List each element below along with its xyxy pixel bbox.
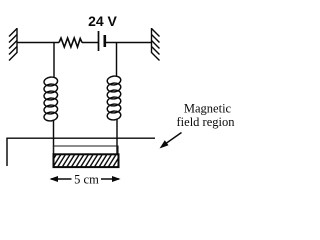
svg-text:Magnetic: Magnetic <box>184 102 232 116</box>
svg-text:field region: field region <box>177 115 236 129</box>
magnetic field region outline <box>7 138 155 166</box>
wire top left segment <box>17 42 59 44</box>
wall anchor left <box>9 28 17 61</box>
spring right <box>107 43 122 156</box>
conducting bar (hatched) <box>54 154 119 167</box>
svg-text:5 cm: 5 cm <box>74 173 99 187</box>
wall anchor right <box>152 28 160 61</box>
bar top outline <box>54 146 119 154</box>
dimension arrow 5 cm <box>50 176 121 182</box>
spring left <box>44 43 59 156</box>
svg-text:24 V: 24 V <box>88 13 117 29</box>
resistor <box>59 38 82 47</box>
wire battery to right wall <box>105 42 152 44</box>
wire resistor to battery <box>82 42 99 44</box>
battery 24 V <box>99 31 105 51</box>
label arrow <box>160 133 182 149</box>
